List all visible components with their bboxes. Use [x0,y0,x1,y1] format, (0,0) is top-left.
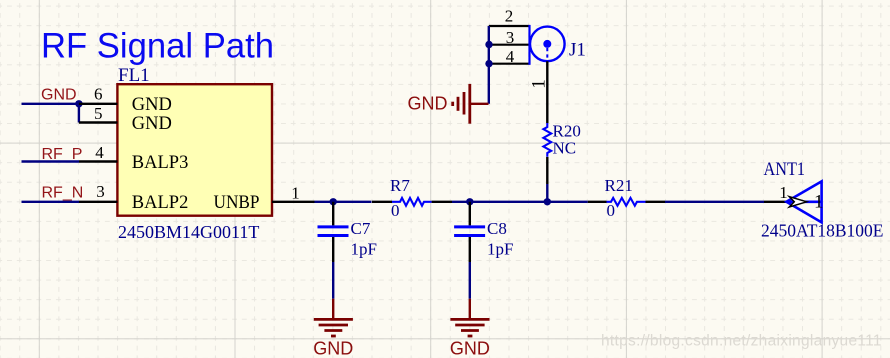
wire C7 to GND [332,262,334,299]
svg-text:C8: C8 [487,219,507,238]
svg-text:4: 4 [506,47,515,66]
svg-text:RF_N: RF_N [42,185,84,202]
wire R20 to net [546,184,548,202]
svg-text:RF_P: RF_P [42,146,83,163]
svg-text:6: 6 [94,85,103,104]
wire net RF_P [22,160,80,162]
svg-text:2: 2 [505,7,514,26]
svg-text:3: 3 [506,28,515,47]
svg-text:2450AT18B100E: 2450AT18B100E [761,221,884,241]
resistor R7 [372,176,452,220]
pin 3 of FL1 [79,182,117,202]
svg-text:5: 5 [94,104,103,123]
svg-text:2450BM14G0011T: 2450BM14G0011T [118,222,259,242]
ground GND under C8 [450,299,490,358]
svg-text:GND: GND [408,94,448,114]
capacitor C7 [318,202,377,262]
svg-text:3: 3 [96,182,105,201]
svg-text:GND: GND [313,339,353,358]
junction node R20 tap [544,198,551,205]
svg-text:GND: GND [132,114,172,134]
svg-text:1: 1 [291,184,300,203]
resistor R20 [543,122,580,185]
balun FL1 body [117,84,272,216]
svg-text:J1: J1 [569,40,586,61]
wire R7 to R21 [452,201,588,203]
connector J1 body [489,25,530,65]
svg-text:ANT1: ANT1 [764,159,806,180]
svg-text:R21: R21 [605,176,633,195]
svg-text:GND: GND [450,339,490,358]
wire net GND left [22,104,79,123]
svg-text:0: 0 [391,201,400,220]
svg-text:GND: GND [41,87,77,104]
svg-text:1: 1 [529,79,550,89]
svg-text:0: 0 [607,201,616,220]
junction node J1 pin4 [485,60,492,67]
pin 1 of J1 [529,61,550,123]
svg-text:R7: R7 [390,176,410,195]
capacitor C8 [454,202,513,262]
pin 4 of FL1 [79,143,117,162]
antenna ANT1 [764,181,824,222]
svg-text:BALP3: BALP3 [132,153,189,173]
svg-text:1: 1 [814,192,824,213]
wire pin1 to R7 [315,201,372,203]
svg-text:RF Signal Path: RF Signal Path [41,27,274,66]
svg-text:UNBP: UNBP [214,193,260,213]
svg-text:1pF: 1pF [487,240,513,259]
pin 1 of FL1 [272,184,315,203]
pin 6 of FL1 [79,85,118,104]
connector J1 coax circle [530,27,565,62]
ground GND under C7 [313,299,353,358]
junction node C8 tap [466,198,473,205]
wire net RF_N [22,201,80,203]
junction node C7 tap [330,198,337,205]
wire C8 to GND [469,262,471,299]
svg-text:1: 1 [779,183,788,202]
svg-text:NC: NC [553,139,577,158]
wire R21 to ANT1 [665,201,764,203]
svg-text:C7: C7 [351,219,371,238]
ground GND sideways near J1 [408,84,489,124]
pin 5 of FL1 [79,104,118,123]
svg-text:GND: GND [132,95,172,115]
resistor R21 [588,176,665,220]
wire J1 shield to GND [488,26,490,104]
svg-text:https://blog.csdn.net/zhaixing: https://blog.csdn.net/zhaixinglanyue111 [601,333,882,350]
junction node GND/pin6 [75,100,82,107]
svg-text:BALP2: BALP2 [132,193,189,213]
svg-text:4: 4 [95,143,104,162]
junction node J1 pin3 [485,41,492,48]
svg-text:FL1: FL1 [118,65,150,86]
svg-text:1pF: 1pF [351,240,377,259]
